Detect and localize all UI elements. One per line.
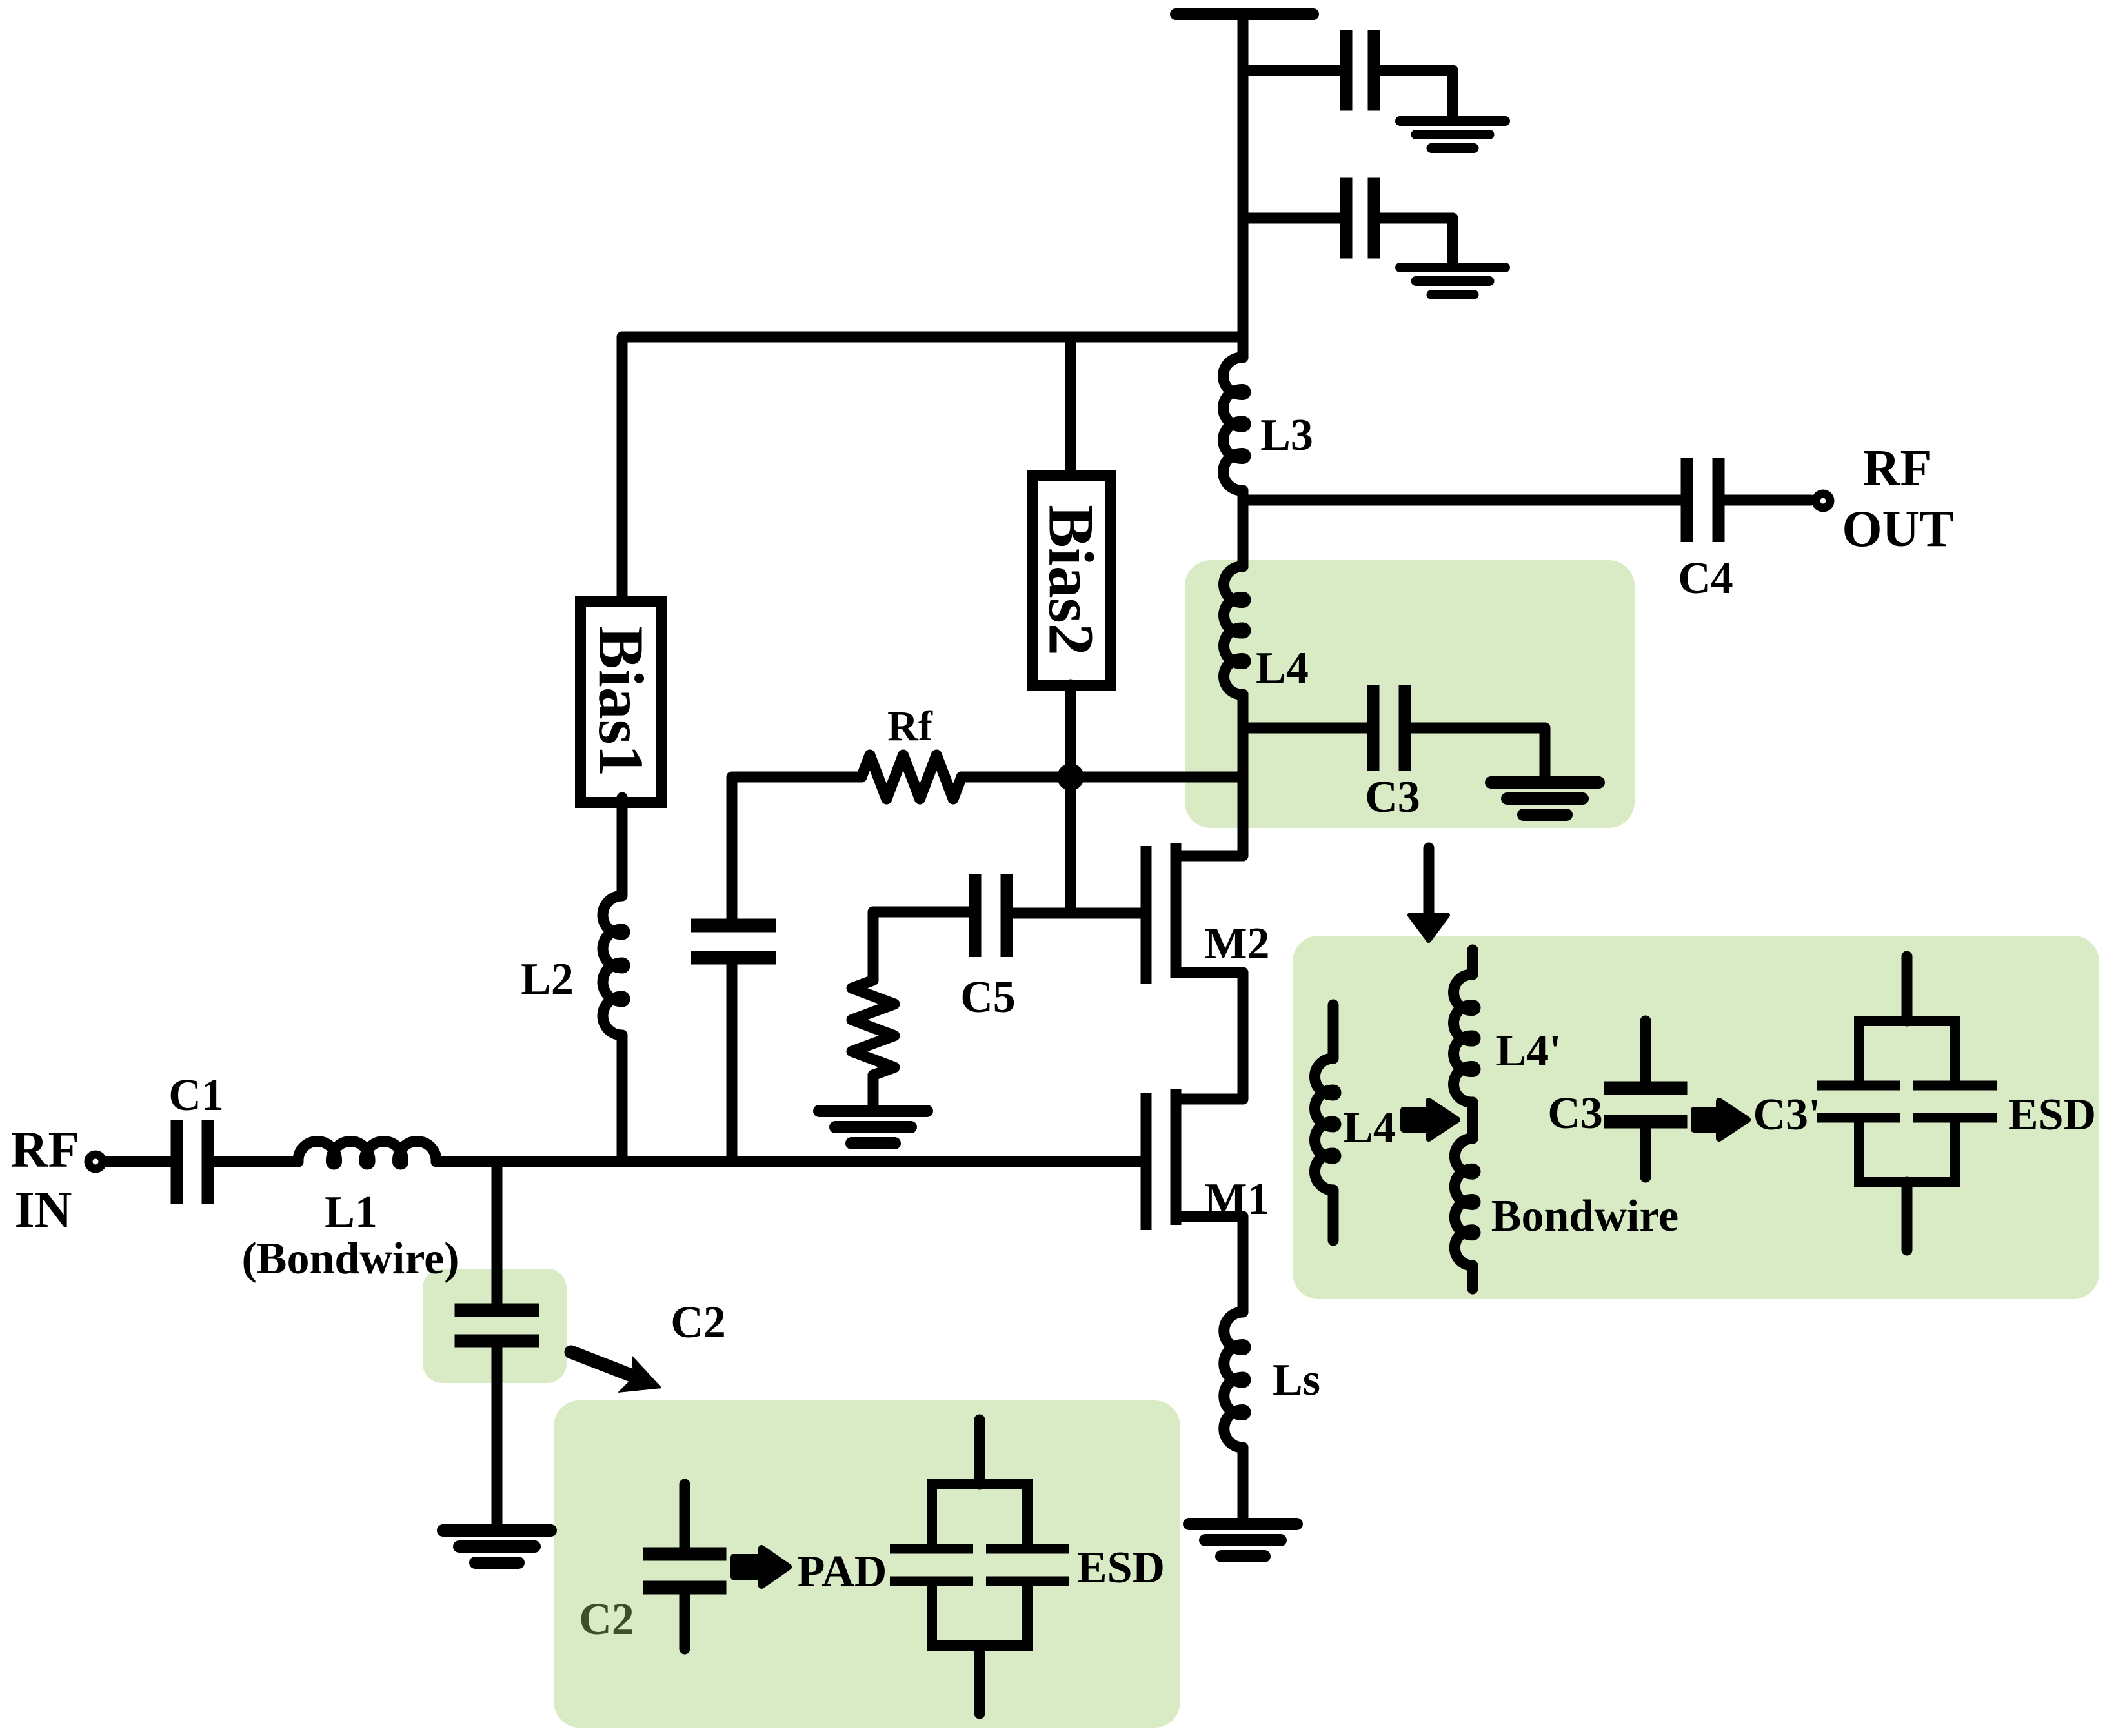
svg-text:Bias2: Bias2 xyxy=(1036,505,1107,655)
svg-text:C3: C3 xyxy=(1365,772,1420,822)
svg-text:Ls: Ls xyxy=(1273,1355,1320,1405)
svg-text:C1: C1 xyxy=(168,1071,224,1120)
svg-text:OUT: OUT xyxy=(1842,501,1953,558)
svg-text:L4': L4' xyxy=(1496,1026,1561,1076)
svg-text:L2: L2 xyxy=(521,954,574,1004)
svg-text:L3: L3 xyxy=(1260,410,1313,460)
svg-text:C5: C5 xyxy=(960,973,1016,1022)
svg-text:ESD: ESD xyxy=(1077,1543,1165,1593)
svg-text:L1: L1 xyxy=(325,1187,378,1237)
svg-text:ESD: ESD xyxy=(2008,1090,2096,1140)
svg-text:C3': C3' xyxy=(1753,1090,1821,1140)
svg-text:IN: IN xyxy=(15,1182,72,1238)
svg-text:M1: M1 xyxy=(1204,1175,1269,1224)
svg-text:M2: M2 xyxy=(1204,919,1269,969)
svg-text:L4: L4 xyxy=(1343,1103,1396,1153)
svg-text:RF: RF xyxy=(1863,440,1932,497)
svg-text:Bias1: Bias1 xyxy=(585,626,657,776)
svg-text:C3: C3 xyxy=(1547,1089,1603,1138)
svg-text:L4: L4 xyxy=(1256,643,1309,693)
svg-text:(Bondwire): (Bondwire) xyxy=(241,1234,459,1284)
svg-text:PAD: PAD xyxy=(798,1547,887,1597)
svg-text:C2: C2 xyxy=(579,1595,634,1644)
svg-text:C4: C4 xyxy=(1678,554,1733,603)
svg-text:Bondwire: Bondwire xyxy=(1491,1191,1678,1241)
svg-text:RF: RF xyxy=(11,1122,80,1178)
svg-text:C2: C2 xyxy=(670,1298,726,1347)
svg-text:Rf: Rf xyxy=(887,703,933,750)
